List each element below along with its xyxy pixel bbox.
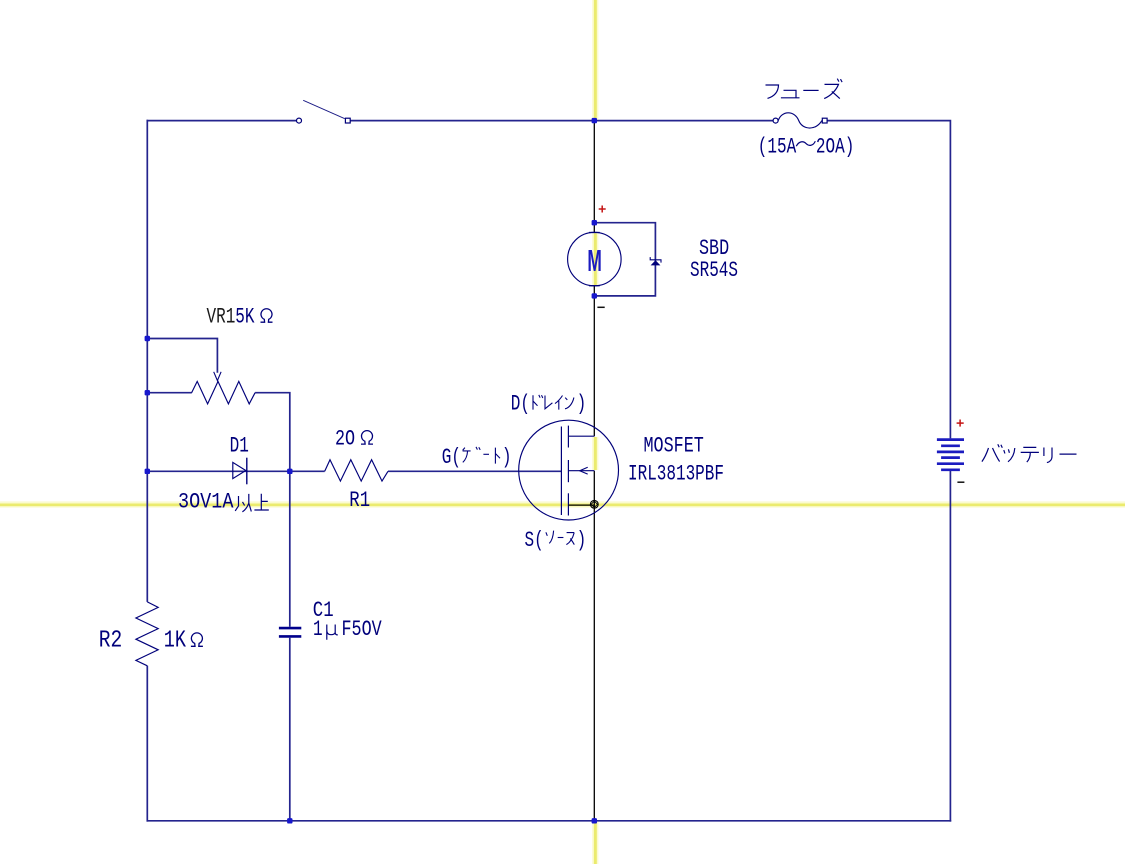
svg-text:S(: S( (525, 528, 544, 553)
MOSFET Q1 body circle (519, 420, 619, 520)
wire C1 bottom (289, 638, 291, 821)
label R1 value ohm symbol (361, 431, 373, 444)
label C1 value mu glyph (327, 625, 338, 640)
wire node A row: left rail to R1 (147, 470, 324, 472)
wire bottom rail (147, 820, 952, 822)
battery BT1 plate short 3 (941, 468, 960, 471)
svg-text:3OV1A: 3OV1A (178, 490, 234, 515)
cursor crosshair vertical line (motor interior) (594, 233, 597, 285)
svg-text:1K: 1K (164, 626, 186, 654)
diode D1 cathode bar (246, 458, 248, 485)
svg-text:MOSFET: MOSFET (644, 432, 704, 458)
battery BT1 plate long 1 (937, 438, 964, 441)
MOSFET Q1 body stub (568, 470, 594, 472)
battery BT1 plate short 1 (941, 444, 960, 447)
switch SW1 right terminal (345, 118, 350, 123)
label battery バッテリー (982, 444, 1077, 462)
label fuse フューズ (766, 79, 843, 99)
wire left rail lower (146, 666, 148, 822)
junction dot VR1 wiper tap (145, 336, 150, 341)
svg-text:): ) (502, 444, 512, 469)
label R2 value ohm symbol (191, 633, 203, 646)
cursor crosshair horizontal line glow (0, 501, 1125, 507)
MOSFET Q1 drain stub (568, 435, 594, 437)
fuse F1 right terminal (822, 118, 827, 123)
capacitor C1 top plate (279, 627, 301, 630)
battery BT1 plate long 3 (937, 462, 964, 465)
wire black: motor - terminal down to MOSFET drain (593, 286, 595, 436)
svg-text:F5OV: F5OV (342, 616, 382, 642)
svg-text:): ) (577, 528, 587, 553)
SBD anode triangle (651, 260, 661, 265)
svg-text:2O: 2O (335, 425, 355, 451)
cursor marker circle at source node (590, 500, 598, 508)
svg-text:M: M (587, 244, 601, 279)
MOSFET Q1 body arrow (580, 467, 588, 474)
wire top rail right segment + right rail upper (827, 121, 950, 439)
junction dot top rail center (592, 118, 597, 123)
junction dot node A right (287, 469, 292, 474)
svg-text:R2: R2 (99, 627, 123, 655)
svg-text:5K: 5K (235, 304, 254, 329)
svg-text:D(: D( (511, 391, 530, 416)
wire right rail lower (battery minus to bottom rail) (949, 471, 951, 822)
cursor crosshair vertical line (drain gap) (594, 437, 597, 470)
fuse F1 wave body (778, 113, 822, 128)
junction dot VR1 left terminal (145, 390, 150, 395)
resistor R2 zigzag (136, 602, 158, 666)
svg-text:SR54S: SR54S (690, 258, 738, 283)
wire black: MOSFET source down to bottom rail (593, 471, 595, 821)
diode D1 triangle (233, 462, 246, 478)
switch SW1 left terminal (297, 118, 302, 123)
MOSFET Q1 source stub (black net) (568, 504, 594, 506)
cursor crosshair vertical line (below bottom rail) (594, 822, 597, 864)
label VR1 value ohm symbol (261, 309, 273, 322)
motor terminal tick bottom (589, 285, 600, 287)
wire VR1 left terminal (147, 392, 192, 394)
potentiometer VR1 zigzag (192, 381, 256, 404)
SBD schottky cathode bar (650, 257, 661, 263)
switch SW1 blade (303, 100, 345, 118)
svg-text:2OA): 2OA) (816, 134, 854, 159)
battery BT1 plate long 2 (937, 451, 964, 454)
svg-text:R1: R1 (349, 488, 370, 514)
svg-text:IRL3813PBF: IRL3813PBF (628, 461, 724, 486)
motor terminal tick top (589, 232, 600, 234)
cursor crosshair vertical line glow (motor interior) (592, 233, 598, 285)
cursor crosshair vertical line (above top rail) (594, 0, 597, 119)
cursor crosshair vertical line glow (below bottom rail) (592, 822, 598, 864)
battery minus mark (957, 481, 964, 483)
motor minus mark (597, 306, 604, 308)
label source katakana sosu (546, 531, 574, 545)
wire VR1 wiper tap (147, 339, 217, 373)
capacitor C1 bottom plate (279, 635, 301, 638)
fuse F1 left terminal (773, 118, 778, 123)
svg-text:G(: G( (442, 444, 461, 469)
MOSFET Q1 gate bar (560, 427, 562, 516)
wire SBD loop across motor (594, 223, 655, 296)
junction dot motor minus (592, 293, 597, 298)
wire top rail left segment (147, 120, 297, 122)
cursor crosshair vertical line glow (above top rail) (592, 0, 598, 119)
potentiometer VR1 wiper arrow (214, 372, 221, 381)
label D1 value kanji 以上 (235, 494, 269, 512)
svg-text:VR1: VR1 (207, 304, 236, 329)
label fuse rating wave dash (796, 141, 815, 146)
svg-text:): ) (577, 391, 587, 416)
junction dot source bottom rail (592, 818, 597, 823)
motor body circle (568, 232, 622, 286)
wire black: top rail junction down to motor + terminal (593, 121, 595, 233)
wire top rail middle segment (350, 120, 773, 122)
svg-text:(15A: (15A (758, 134, 797, 159)
junction dot motor plus (592, 220, 597, 225)
wire VR1 right terminal down to D1 row (255, 393, 290, 472)
junction dot node A left (145, 469, 150, 474)
cursor marker diamond (591, 501, 597, 507)
wire R1 to MOSFET gate (388, 470, 561, 472)
label gate katakana geto (463, 447, 500, 464)
svg-text:D1: D1 (230, 433, 249, 458)
resistor R1 zigzag (325, 460, 388, 481)
wire C1 top (289, 471, 291, 627)
MOSFET Q1 channel dashes (567, 426, 569, 516)
svg-text:1: 1 (313, 616, 323, 641)
wire left rail upper (146, 120, 148, 602)
cursor crosshair vertical line glow (drain gap) (592, 437, 598, 470)
junction dot C1 bottom rail (287, 818, 292, 823)
battery plus mark (957, 420, 964, 427)
motor plus mark (599, 206, 606, 213)
cursor crosshair horizontal line (0, 504, 1125, 507)
label drain katakana dorein (533, 395, 574, 410)
battery BT1 plate short 2 (941, 456, 960, 459)
